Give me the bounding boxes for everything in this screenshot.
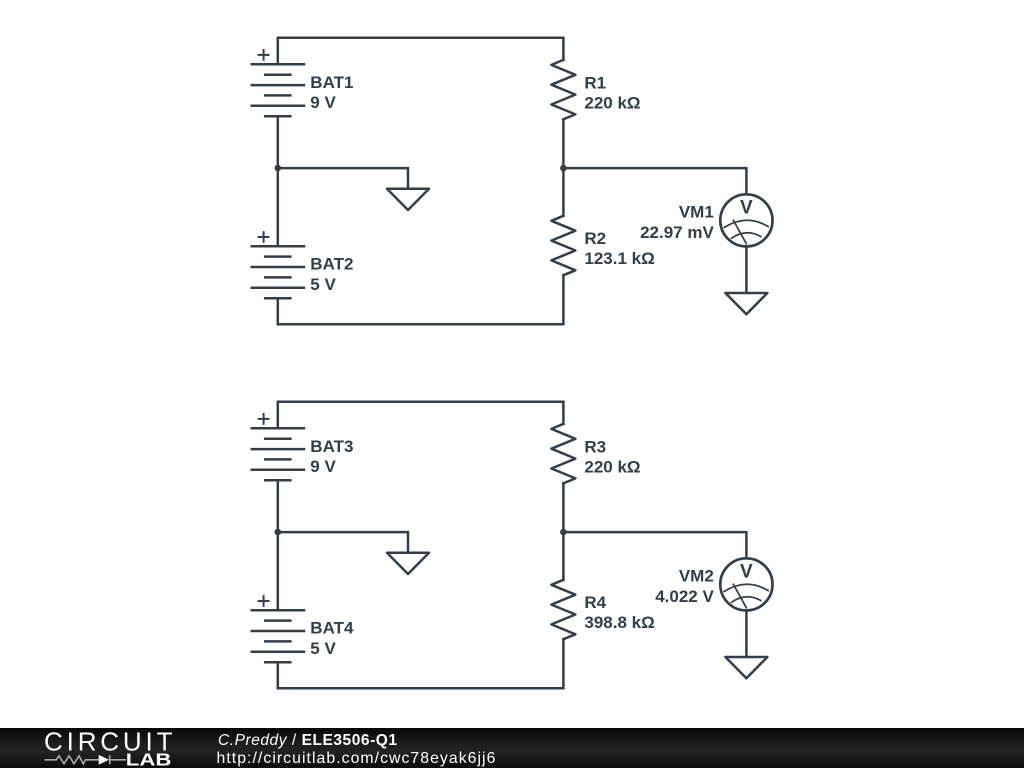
wire VM2 to ground: [745, 611, 748, 657]
wire top rail (BAT1+ to R1 top): [278, 38, 564, 65]
node junction (BAT3/BAT4/gnd): [275, 529, 282, 536]
ground (top circuit): [387, 189, 429, 210]
svg-text:4.022 V: 4.022 V: [655, 587, 714, 606]
wire R3 bottom to node: [562, 483, 565, 532]
node junction (R3/R4/VM2): [560, 529, 567, 536]
svg-text:9 V: 9 V: [310, 93, 336, 112]
svg-text:BAT1: BAT1: [310, 73, 353, 92]
svg-text:http://circuitlab.com/cwc78eya: http://circuitlab.com/cwc78eyak6jj6: [217, 750, 497, 767]
svg-text:C.Preddy / ELE3506-Q1: C.Preddy / ELE3506-Q1: [218, 732, 398, 749]
svg-text:123.1 kΩ: 123.1 kΩ: [584, 249, 654, 268]
svg-text:398.8 kΩ: 398.8 kΩ: [584, 613, 654, 632]
svg-text:BAT4: BAT4: [310, 619, 354, 638]
svg-text:22.97 mV: 22.97 mV: [640, 223, 714, 242]
ground (VM1): [725, 293, 767, 314]
svg-text:BAT3: BAT3: [310, 437, 353, 456]
battery BAT1: [251, 64, 306, 116]
wire bottom rail (BAT2- to R2 bottom): [278, 275, 564, 324]
battery BAT3: [251, 428, 306, 480]
wire node to ground branch: [278, 168, 408, 188]
svg-text:220 kΩ: 220 kΩ: [584, 457, 640, 476]
svg-text:R1: R1: [584, 73, 606, 92]
logo resistor-diode squiggle: [45, 755, 127, 764]
ground (bottom circuit): [387, 553, 429, 574]
battery BAT4: [251, 610, 306, 662]
wire node to ground branch: [278, 532, 408, 552]
resistor R1: [551, 60, 575, 119]
voltmeter VM2: [720, 558, 772, 610]
svg-text:LAB: LAB: [126, 751, 172, 768]
BAT1 plus sign: [258, 49, 270, 61]
svg-text:VM2: VM2: [679, 567, 714, 586]
wire node to R2 top: [562, 168, 565, 216]
BAT3 plus sign: [258, 413, 270, 425]
resistor R2: [551, 216, 575, 275]
wire node to VM2: [563, 532, 746, 558]
wire bottom rail (BAT4- to R4 bottom): [278, 639, 564, 688]
svg-text:V: V: [740, 562, 753, 583]
BAT2 plus sign: [258, 231, 270, 243]
wire top rail (BAT3+ to R3 top): [278, 402, 564, 429]
svg-text:VM1: VM1: [679, 203, 714, 222]
svg-text:V: V: [740, 198, 753, 219]
svg-text:5 V: 5 V: [310, 275, 336, 294]
BAT4 plus sign: [258, 595, 270, 607]
svg-text:R2: R2: [584, 229, 606, 248]
battery BAT2: [251, 246, 306, 298]
svg-text:R4: R4: [584, 593, 606, 612]
wire BAT3- to node: [277, 480, 280, 532]
wire node to BAT2+: [277, 168, 280, 246]
ground (VM2): [725, 657, 767, 678]
resistor R4: [551, 580, 575, 639]
wire node to R4 top: [562, 532, 565, 580]
wire node to VM1: [563, 168, 746, 194]
wire R1 bottom to node: [562, 119, 565, 168]
svg-text:220 kΩ: 220 kΩ: [584, 93, 640, 112]
resistor R3: [551, 424, 575, 483]
node junction (BAT1/BAT2/gnd): [275, 165, 282, 172]
wire node to BAT4+: [277, 532, 280, 610]
svg-text:R3: R3: [584, 437, 606, 456]
logo diode triangle: [99, 755, 109, 765]
voltmeter VM1: [720, 194, 772, 246]
wire BAT1- to node: [277, 116, 280, 168]
wire VM1 to ground: [745, 247, 748, 293]
node junction (R1/R2/VM1): [560, 165, 567, 172]
footer bar: [0, 728, 1024, 768]
svg-text:5 V: 5 V: [310, 639, 336, 658]
svg-text:BAT2: BAT2: [310, 255, 353, 274]
svg-text:9 V: 9 V: [310, 457, 336, 476]
